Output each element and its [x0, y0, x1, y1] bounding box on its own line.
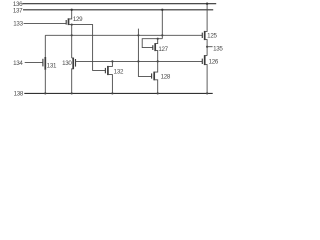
svg-text:138: 138	[14, 90, 24, 97]
svg-text:125: 125	[207, 32, 217, 39]
junction on bus	[137, 34, 139, 36]
transistor 128	[152, 61, 158, 93]
transistor 129	[66, 10, 72, 25]
junction 127 source / 128 drain on gate line	[157, 60, 159, 62]
svg-text:126: 126	[209, 58, 219, 65]
svg-text:135: 135	[213, 46, 223, 53]
junction 125 drain on rail 136	[206, 3, 208, 5]
transistor 130	[72, 58, 76, 94]
svg-text:132: 132	[114, 69, 124, 76]
transistor 131	[43, 35, 45, 93]
wire lead node 135	[207, 46, 213, 48]
junction on gate line	[137, 60, 139, 62]
junction 131 source on rail 138	[44, 92, 46, 94]
transistor 127	[153, 39, 158, 62]
wire rail 136	[22, 3, 216, 5]
svg-text:134: 134	[13, 60, 23, 67]
transistor 125	[202, 4, 207, 56]
junction on bus	[161, 34, 163, 36]
wire lead 134 to gate of 131	[25, 62, 43, 64]
svg-text:127: 127	[158, 46, 168, 53]
wire 127 gate-drain loop	[142, 39, 162, 48]
junction on rail 137	[161, 9, 163, 11]
wire source of 129 to gate of 132	[69, 25, 106, 71]
svg-text:133: 133	[13, 20, 23, 27]
wire vertical rail137 to 127 loop	[161, 10, 163, 39]
junction 127 drain on loop top	[157, 38, 159, 40]
wire rail 137	[23, 9, 213, 11]
junction 132 source on rail 138	[111, 92, 113, 94]
junction 129 source / 130 drain	[71, 24, 73, 26]
wire bottom rail 138	[24, 92, 212, 94]
transistor 132	[105, 61, 112, 93]
junction bus / 130 drain line	[71, 34, 73, 36]
junction 126 source on rail 138	[206, 92, 208, 94]
svg-text:128: 128	[161, 73, 171, 80]
junction 129 drain on rail 137	[71, 9, 73, 11]
wire vertical from bus to gate line	[138, 29, 151, 77]
wire 130 drain vertical	[71, 25, 73, 58]
transistor 126	[202, 55, 207, 93]
svg-text:130: 130	[62, 60, 72, 67]
junction 128 source on rail 138	[157, 92, 159, 94]
wire gate line 130 to 126	[76, 60, 203, 62]
wire bus node to gate of 125	[45, 34, 202, 36]
svg-text:131: 131	[47, 63, 57, 70]
wire line 133 to gate of 129	[24, 22, 67, 24]
svg-text:129: 129	[73, 16, 83, 23]
svg-text:137: 137	[13, 7, 23, 14]
junction 130 source on rail 138	[71, 92, 73, 94]
junction 132 drain on gate line	[111, 60, 113, 62]
junction node 135	[206, 46, 208, 48]
